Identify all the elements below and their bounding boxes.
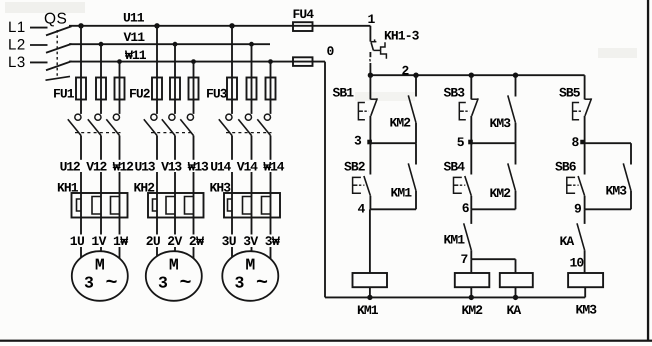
- svg-text:8: 8: [572, 135, 580, 150]
- wire L3: [30, 61, 48, 63]
- wire node7 to coil KA: [515, 259, 517, 273]
- contact KA interlock: [584, 209, 586, 224]
- contact KM1 main W: [113, 114, 119, 120]
- wire node6: [471, 208, 515, 210]
- motor M3: [222, 251, 278, 301]
- svg-text:3: 3: [354, 134, 362, 149]
- wire motor M1 terminal V: [100, 247, 102, 251]
- relay KH2 heater U: [156, 193, 158, 218]
- wire U13 drop: [156, 26, 158, 114]
- button SB2: [369, 143, 371, 174]
- contact KH1-3: [370, 41, 376, 43]
- relay KH2 heater W: [193, 193, 195, 218]
- contact KM1 main V: [95, 114, 101, 120]
- relay KH1 heater W: [119, 193, 121, 218]
- fuse FU3 phase W: [266, 78, 276, 100]
- wire motor M1 terminal W: [119, 247, 121, 258]
- svg-text:2: 2: [402, 63, 410, 78]
- button SB6: [584, 143, 586, 174]
- wire to KH3 V: [251, 172, 253, 193]
- motor M2: [146, 251, 202, 301]
- svg-text:6: 6: [462, 201, 470, 216]
- fuse FU2 phase V: [170, 78, 180, 100]
- wire node4 to coil KM1: [369, 209, 371, 273]
- svg-text:KM2: KM2: [390, 116, 412, 131]
- svg-text:FU1: FU1: [53, 87, 75, 102]
- wire motor M3 terminal V: [251, 247, 253, 251]
- wire bottom bus: [325, 296, 585, 298]
- junction node2-A2: [413, 73, 418, 78]
- contact KM3 main U: [226, 114, 232, 120]
- relay KH1 heater V: [100, 193, 102, 218]
- svg-text:4: 4: [358, 202, 366, 217]
- svg-text:0: 0: [327, 44, 335, 59]
- wire KH2 to motor W: [193, 218, 195, 235]
- wire KH3 to motor U: [231, 218, 233, 235]
- junction V11-V12: [99, 42, 104, 47]
- wire to KH3 W: [270, 172, 272, 193]
- svg-text:1: 1: [368, 12, 376, 27]
- svg-text:L3: L3: [8, 54, 26, 71]
- fuse FU3 phase U: [227, 78, 237, 100]
- junction W11-W14: [268, 59, 273, 64]
- svg-text:~: ~: [256, 272, 268, 295]
- wire motor M1 terminal U: [80, 247, 82, 258]
- svg-text:FU2: FU2: [129, 87, 151, 102]
- wire coil KM2 to bus: [470, 287, 472, 297]
- wire node1 corner: [369, 26, 371, 42]
- fuse FU1 phase V: [96, 78, 106, 100]
- contact KM1 linkage: [75, 132, 121, 134]
- wire node9: [585, 208, 631, 210]
- junction node 8: [580, 140, 585, 145]
- svg-text:L1: L1: [8, 19, 26, 36]
- junction node 3: [367, 140, 372, 145]
- contact KM1 aux seal-in: [415, 143, 417, 164]
- wire V13 drop: [174, 44, 176, 114]
- wire KH1 to motor U: [80, 218, 82, 235]
- wire V11 bus: [69, 43, 270, 45]
- wire KH1 to motor V: [100, 218, 102, 235]
- contact KM2 main V: [169, 114, 175, 120]
- svg-text:QS: QS: [44, 11, 67, 28]
- svg-text:U14 V14 ₩14: U14 V14 ₩14: [210, 160, 285, 175]
- junction U11-U12: [78, 23, 83, 28]
- junction W11-W12: [117, 59, 122, 64]
- border right: [647, 0, 649, 342]
- contact KM3 main V: [245, 114, 251, 120]
- wire KH2 to motor V: [174, 218, 176, 235]
- junction KM1-bus: [367, 295, 372, 300]
- junction V11-V14: [249, 42, 254, 47]
- contact KM3 aux seal-in (parallel SB6): [630, 143, 632, 164]
- svg-text:U12 V12 ₩12: U12 V12 ₩12: [60, 160, 135, 175]
- svg-text:KM3: KM3: [490, 116, 512, 131]
- svg-text:3: 3: [234, 274, 244, 293]
- wire bus node2: [370, 74, 584, 76]
- wire W12 drop: [119, 62, 121, 114]
- wire W14 drop: [270, 62, 272, 114]
- junction node2-B2: [513, 73, 518, 78]
- svg-text:KM2: KM2: [490, 186, 512, 201]
- wire coil KA to bus: [515, 287, 517, 297]
- wire to KH3 U: [231, 172, 233, 193]
- wire 0 vertical: [324, 62, 326, 298]
- motor M1: [72, 251, 128, 301]
- wire to KH2 V: [174, 172, 176, 193]
- wire motor M3 terminal U: [231, 247, 233, 257]
- wire L1: [30, 27, 48, 29]
- svg-text:KM1: KM1: [444, 233, 466, 248]
- coil KA: [500, 273, 533, 287]
- button SB5: [584, 75, 586, 99]
- wire U11 bus: [69, 25, 370, 27]
- svg-text:KM1: KM1: [357, 303, 379, 318]
- wire bus2 corner to SB5: [584, 74, 586, 76]
- switch QS pole L2: [46, 44, 72, 53]
- junction V11-V13: [173, 42, 178, 47]
- wire KH1 to motor W: [119, 218, 121, 235]
- contact KM1 main U: [75, 114, 81, 120]
- contact KM2 aux seal-in: [515, 143, 517, 164]
- wire node7 to coil KM2: [470, 259, 472, 273]
- relay KH3 body: [224, 193, 280, 218]
- wire to KH2 W: [193, 172, 195, 193]
- wire KH2 to motor U: [156, 218, 158, 235]
- wire to KH1 W: [119, 172, 121, 193]
- relay KH1 heater U: [80, 193, 82, 218]
- coil KM2: [455, 273, 490, 287]
- button SB1: [369, 75, 371, 99]
- svg-text:1U 1V 1₩: 1U 1V 1₩: [70, 234, 128, 249]
- border bottom: [0, 340, 652, 342]
- junction U11-U13: [154, 23, 159, 28]
- fuse FU3 phase V: [247, 78, 257, 100]
- svg-text:M: M: [169, 256, 179, 275]
- contact KM2 linkage: [151, 132, 195, 134]
- wire node4: [370, 208, 416, 210]
- wire motor M2 terminal U: [156, 247, 158, 256]
- svg-text:M: M: [245, 256, 255, 275]
- svg-text:L2: L2: [8, 37, 26, 54]
- svg-text:SB6: SB6: [555, 159, 577, 174]
- svg-text:FU4: FU4: [293, 7, 315, 22]
- wire KH1-3 to node2: [369, 52, 371, 57]
- relay KH2 heater V: [174, 193, 176, 218]
- wire coil KM3 to bus: [584, 287, 586, 297]
- svg-text:KM3: KM3: [576, 302, 598, 317]
- fuse FU0 on W11: [293, 57, 313, 66]
- svg-text:KA: KA: [507, 303, 522, 318]
- fuse FU1 phase U: [76, 78, 86, 100]
- junction KA-bus: [513, 295, 518, 300]
- coil KM3: [568, 273, 603, 287]
- relay KH3 heater W: [270, 193, 272, 218]
- wire to KH1 U: [80, 172, 82, 193]
- svg-text:M: M: [95, 256, 105, 275]
- svg-text:SB4: SB4: [444, 159, 466, 174]
- wire node7: [471, 258, 515, 260]
- contact KM3 aux (parallel SB3): [515, 75, 517, 96]
- relay KH2 body: [148, 193, 204, 218]
- wire U12 drop: [80, 26, 82, 114]
- junction KM2-bus: [469, 295, 474, 300]
- svg-text:KH1-3: KH1-3: [384, 29, 420, 44]
- wire KH3 to motor V: [251, 218, 253, 235]
- svg-text:SB5: SB5: [559, 85, 581, 100]
- svg-text:U11: U11: [123, 10, 145, 25]
- svg-text:V11: V11: [124, 30, 146, 45]
- svg-text:7: 7: [461, 252, 468, 267]
- junction W11-W13: [191, 59, 196, 64]
- wire node8: [585, 142, 631, 144]
- wire V12 drop: [100, 44, 102, 114]
- wire KH3 to motor W: [270, 218, 272, 235]
- svg-text:FU3: FU3: [206, 87, 228, 102]
- svg-text:SB2: SB2: [344, 159, 366, 174]
- relay KH1 body: [72, 193, 128, 218]
- svg-text:~: ~: [105, 272, 117, 295]
- fuse FU4: [293, 22, 313, 31]
- button SB3: [470, 75, 472, 99]
- svg-text:SB3: SB3: [444, 85, 466, 100]
- relay KH3 heater V: [251, 193, 253, 218]
- wire W11 bus: [69, 61, 325, 63]
- wire to KH2 U: [156, 172, 158, 193]
- contact KM3 linkage: [226, 132, 272, 134]
- contact KM2 main U: [151, 114, 157, 120]
- fuse FU2 phase U: [152, 78, 162, 100]
- svg-text:3U 3V 3₩: 3U 3V 3₩: [222, 234, 280, 249]
- contact KM2 main W: [187, 114, 193, 120]
- relay KH3 heater U: [231, 193, 233, 218]
- junction node2-A: [368, 73, 373, 78]
- wire motor M2 terminal W: [193, 247, 195, 258]
- svg-text:SB1: SB1: [333, 85, 355, 100]
- contact KM2 aux (parallel SB1): [415, 75, 417, 96]
- wire W13 drop: [193, 62, 195, 114]
- wire V14 drop: [251, 44, 253, 114]
- svg-text:KA: KA: [560, 234, 575, 249]
- wire coil KM1 to bus: [369, 287, 371, 297]
- coil KM1: [353, 273, 388, 287]
- switch QS linkage: [56, 30, 58, 78]
- svg-text:3: 3: [158, 274, 168, 293]
- junction node 5: [468, 140, 473, 145]
- button SB4: [470, 143, 472, 174]
- svg-text:5: 5: [457, 135, 465, 150]
- wire motor M3 terminal W: [270, 247, 272, 259]
- wire motor M2 terminal V: [174, 247, 176, 251]
- fuse FU1 phase W: [115, 78, 125, 100]
- contact KM3 main W: [264, 114, 270, 120]
- switch QS pole L1: [46, 26, 72, 35]
- switch QS pole L3: [46, 61, 72, 70]
- wire L2: [30, 44, 48, 46]
- svg-text:KM1: KM1: [391, 185, 413, 200]
- wire node5: [471, 142, 515, 144]
- contact KM1 interlock: [470, 209, 472, 224]
- fuse FU2 phase W: [189, 78, 199, 100]
- junction U11-U14: [229, 23, 234, 28]
- svg-text:~: ~: [179, 272, 191, 295]
- svg-text:3: 3: [84, 274, 94, 293]
- svg-text:2U 2V 2₩: 2U 2V 2₩: [146, 234, 204, 249]
- svg-text:₩11: ₩11: [125, 48, 147, 63]
- svg-text:9: 9: [574, 202, 582, 217]
- svg-text:KM3: KM3: [606, 183, 628, 198]
- svg-text:U13 V13 ₩13: U13 V13 ₩13: [135, 160, 210, 175]
- svg-text:10: 10: [570, 255, 585, 270]
- wire node3: [370, 142, 416, 144]
- junction node2-B: [469, 73, 474, 78]
- wire U14 drop: [231, 26, 233, 114]
- wire to KH1 V: [100, 172, 102, 193]
- svg-text:KM2: KM2: [462, 303, 484, 318]
